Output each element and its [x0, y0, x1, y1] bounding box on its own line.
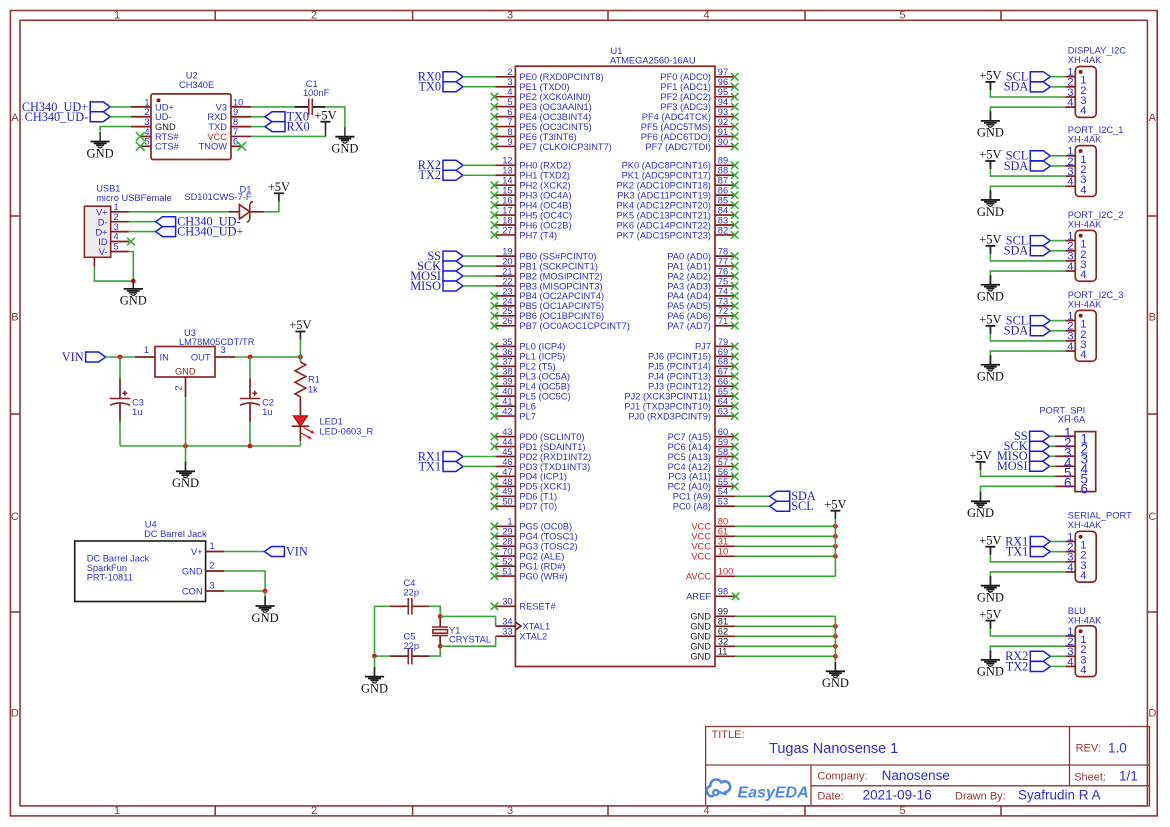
svg-text:GND: GND: [977, 290, 1004, 304]
wire U4 GND: [224, 571, 265, 591]
svg-text:86: 86: [718, 186, 728, 196]
wire +5V to SERIAL_PORT pin 3: [990, 555, 1065, 562]
junction: [248, 444, 253, 449]
svg-text:V3: V3: [216, 102, 227, 112]
SERIAL_PORT pin 3: [1065, 561, 1075, 563]
U1 pin 84 PK5: [715, 214, 735, 216]
svg-text:VIN: VIN: [286, 544, 308, 558]
svg-text:6: 6: [233, 137, 238, 147]
wire: [735, 645, 835, 647]
svg-text:PH5 (OC4C): PH5 (OC4C): [519, 210, 572, 220]
+5V power at U1: [824, 497, 846, 518]
BLU pin 4: [1065, 665, 1075, 667]
U1 pin 44 PD1: [495, 446, 515, 448]
svg-text:GND: GND: [690, 612, 711, 622]
svg-text:46: 46: [502, 457, 512, 467]
svg-text:PH1 (TXD2): PH1 (TXD2): [519, 171, 570, 181]
wire: [1050, 541, 1065, 543]
wire SERIAL_PORT pin 4 to ground: [990, 572, 1065, 576]
svg-text:PL5 (OC5C): PL5 (OC5C): [519, 391, 570, 401]
+5V power at PORT_I2C_2: [979, 233, 1001, 254]
wire: [1050, 655, 1065, 657]
svg-text:AVCC: AVCC: [686, 572, 711, 582]
svg-text:22p: 22p: [404, 641, 420, 651]
svg-text:MISO: MISO: [410, 279, 441, 293]
svg-text:+5V: +5V: [979, 607, 1001, 621]
wire +5V to node: [299, 339, 301, 357]
U3 pin 1: [135, 356, 155, 358]
svg-text:68: 68: [718, 357, 728, 367]
U1 pin 65 PJ2: [715, 395, 735, 397]
wire: [1050, 455, 1056, 457]
svg-text:V-: V-: [99, 247, 108, 257]
USB1 pin 1: [111, 211, 129, 213]
wire: [463, 255, 495, 257]
svg-text:1u: 1u: [132, 407, 142, 417]
capacitor C1 100nF: [295, 79, 330, 115]
svg-text:15: 15: [502, 186, 512, 196]
svg-text:XH-4AK: XH-4AK: [1068, 299, 1102, 309]
wire PORT_I2C_2 pin 4 to ground: [990, 271, 1065, 275]
+5V power at SERIAL_PORT: [979, 533, 1001, 554]
svg-text:72: 72: [718, 306, 728, 316]
svg-text:GND: GND: [175, 367, 196, 377]
wire: [1050, 86, 1065, 88]
DISPLAY_I2C pin 4: [1065, 106, 1075, 108]
wire LED1 cathode: [299, 426, 301, 441]
svg-text:13: 13: [502, 166, 512, 176]
U1 pin 83 PK6: [715, 224, 735, 226]
U1 pin 8 PE6: [495, 136, 515, 138]
svg-text:1: 1: [507, 517, 512, 527]
wire: [735, 545, 835, 547]
svg-text:4: 4: [1067, 562, 1073, 574]
wire C5 to crystal: [430, 646, 441, 656]
net flag TX1: [418, 459, 463, 473]
svg-text:2021-09-16: 2021-09-16: [863, 788, 932, 803]
U1 pin 99 GND: [715, 615, 735, 617]
wire to ground: [264, 591, 266, 597]
U1 pin 45 PD2: [495, 456, 515, 458]
svg-text:PB4 (OC2APCINT4): PB4 (OC2APCINT4): [519, 291, 604, 301]
svg-text:PORT_I2C_3: PORT_I2C_3: [1068, 290, 1124, 300]
wire: [1050, 665, 1065, 667]
U1 pin 77 PA1: [715, 265, 735, 267]
svg-text:75: 75: [718, 276, 728, 286]
svg-text:PK6 (ADC14PCINT22): PK6 (ADC14PCINT22): [616, 220, 711, 230]
svg-text:39: 39: [502, 377, 512, 387]
capacitor C2 1u (polarized): [240, 378, 274, 421]
svg-text:3: 3: [114, 222, 119, 232]
svg-text:PA1 (AD1): PA1 (AD1): [667, 261, 711, 271]
net flag SCK: [417, 259, 463, 273]
U1 pin 73 PA5: [715, 305, 735, 307]
svg-text:PA4 (AD4): PA4 (AD4): [667, 291, 711, 301]
U1 pin 55 PC2: [715, 485, 735, 487]
svg-text:PJ3 (PCINT12): PJ3 (PCINT12): [648, 382, 711, 392]
ground: [252, 597, 279, 625]
net flag SS at PORT_SPI: [1014, 429, 1050, 443]
svg-text:90: 90: [718, 137, 728, 147]
svg-text:53: 53: [718, 497, 728, 507]
svg-text:7: 7: [507, 117, 512, 127]
svg-text:PD7 (T0): PD7 (T0): [519, 502, 557, 512]
svg-text:XH-6A: XH-6A: [1058, 415, 1086, 425]
svg-text:DC Barrel Jack: DC Barrel Jack: [87, 554, 150, 564]
junction: [298, 355, 303, 360]
svg-text:PA7 (AD7): PA7 (AD7): [667, 321, 711, 331]
svg-text:PG4 (TOSC1): PG4 (TOSC1): [519, 532, 577, 542]
no-connect U2 pin 5: [136, 142, 145, 151]
wire: [110, 116, 131, 118]
svg-text:21: 21: [502, 266, 512, 276]
svg-text:IN: IN: [160, 353, 169, 363]
svg-text:1: 1: [144, 97, 149, 107]
net flag RX0: [265, 119, 310, 133]
U1 pin 18 PH6: [495, 224, 515, 226]
U1 pin 68 PJ5: [715, 365, 735, 367]
svg-text:PE0 (RXD0PCINT8): PE0 (RXD0PCINT8): [519, 72, 603, 82]
wire PORT_SPI pin 6 to ground: [981, 486, 1056, 491]
net flag MISO at PORT_SPI: [997, 449, 1050, 463]
svg-text:2: 2: [114, 212, 119, 222]
svg-text:PC7 (A15): PC7 (A15): [668, 432, 711, 442]
ground: [977, 576, 1004, 604]
svg-text:47: 47: [502, 467, 512, 477]
wire PC1 to SDA: [735, 495, 770, 497]
U3 pin 3: [215, 356, 235, 358]
svg-text:XTAL2: XTAL2: [519, 632, 547, 642]
svg-text:PORT_I2C_2: PORT_I2C_2: [1068, 210, 1124, 220]
net flag SCL at PORT_I2C_2: [1006, 233, 1051, 247]
wire C1 to GND: [325, 107, 345, 127]
U1 pin 61 VCC: [715, 535, 735, 537]
wire VCC to +5V: [251, 135, 326, 137]
svg-text:PL2 (T5): PL2 (T5): [519, 362, 555, 372]
U1 pin 36 PL1: [495, 355, 515, 357]
svg-text:49: 49: [502, 487, 512, 497]
junction: [833, 544, 838, 549]
U4 pin 1: [206, 551, 224, 553]
wire: [463, 456, 495, 458]
PORT_I2C_1 pin 3: [1065, 175, 1075, 177]
wire: [1050, 551, 1065, 553]
regulator U3 LM78M05CDT/TR body: [155, 328, 255, 377]
svg-text:PJ0 (RXD3PCINT9): PJ0 (RXD3PCINT9): [628, 411, 711, 421]
wire: [1050, 445, 1056, 447]
U1 pin 5 PE3: [495, 106, 515, 108]
svg-text:99: 99: [718, 607, 728, 617]
ground: [87, 132, 114, 160]
svg-text:PA6 (AD6): PA6 (AD6): [667, 311, 711, 321]
svg-text:U2: U2: [186, 71, 198, 81]
svg-text:GND: GND: [331, 142, 358, 156]
ground: [977, 190, 1004, 218]
U1 pin 82 PK7: [715, 234, 735, 236]
svg-text:RX0: RX0: [287, 119, 310, 133]
U1 pin 9 PE7: [495, 145, 515, 147]
wire +5V to PORT_I2C_1 pin 3: [990, 169, 1065, 176]
svg-text:PE2 (XCK0AIN0): PE2 (XCK0AIN0): [519, 92, 590, 102]
U1 pin 93 PF4: [715, 116, 735, 118]
U1 pin 54 PC1: [715, 495, 735, 497]
wire D+ net: [129, 231, 156, 233]
svg-text:PE4 (OC3BINT4): PE4 (OC3BINT4): [519, 112, 591, 122]
svg-text:95: 95: [718, 87, 728, 97]
svg-text:PE5 (OC3CINT5): PE5 (OC3CINT5): [519, 122, 591, 132]
U1 pin 80 VCC: [715, 525, 735, 527]
svg-text:44: 44: [502, 437, 512, 447]
ground: [977, 111, 1004, 139]
PORT_I2C_3 pin 2: [1065, 330, 1075, 332]
svg-text:64: 64: [718, 397, 728, 407]
U1 pin 15 PH3: [495, 194, 515, 196]
U1 pin 46 PD3: [495, 465, 515, 467]
U1 pin 86 PK3: [715, 194, 735, 196]
junction: [833, 644, 838, 649]
svg-text:U4: U4: [145, 519, 157, 529]
resistor R1 1k: [295, 357, 320, 397]
svg-text:PD5 (XCK1): PD5 (XCK1): [519, 482, 570, 492]
svg-text:77: 77: [718, 256, 728, 266]
net flag TX2 at BLU: [1006, 659, 1051, 673]
svg-text:28: 28: [502, 537, 512, 547]
net flag TX0: [418, 80, 463, 94]
svg-text:PB1 (SCKPCINT1): PB1 (SCKPCINT1): [519, 261, 598, 271]
wire to C2: [249, 357, 251, 378]
wire crystal ground rail: [374, 606, 376, 656]
svg-text:10: 10: [718, 547, 728, 557]
U1 pin 1 PG5: [495, 525, 515, 527]
svg-text:GND: GND: [690, 652, 711, 662]
U1 pin 30 RESET#: [495, 605, 515, 607]
junction: [833, 554, 838, 559]
svg-text:54: 54: [718, 487, 728, 497]
net flag TX2: [418, 168, 463, 182]
U1 pin 56 PC3: [715, 475, 735, 477]
svg-text:+5V: +5V: [314, 108, 336, 122]
DISPLAY_I2C pin 1: [1065, 76, 1075, 78]
svg-text:1k: 1k: [308, 384, 318, 394]
junction: [438, 614, 443, 619]
junction: [118, 355, 123, 360]
wire +5V rail: [834, 518, 836, 576]
svg-text:XH-4AK: XH-4AK: [1068, 616, 1102, 626]
PORT_I2C_3 pin 1: [1065, 320, 1075, 322]
BLU pin 3: [1065, 655, 1075, 657]
svg-text:9: 9: [233, 107, 238, 117]
svg-text:PK0 (ADC8PCINT16): PK0 (ADC8PCINT16): [622, 161, 711, 171]
U1 pin 58 PC5: [715, 456, 735, 458]
+5V power at PORT_I2C_1: [979, 148, 1001, 169]
svg-text:4: 4: [1080, 349, 1086, 361]
svg-text:PH2 (XCK2): PH2 (XCK2): [519, 181, 570, 191]
svg-text:91: 91: [718, 127, 728, 137]
wire: [463, 76, 495, 78]
junction: [833, 534, 838, 539]
U1 pin 11 GND: [715, 655, 735, 657]
svg-text:26: 26: [502, 316, 512, 326]
U1 pin 41 PL6: [495, 405, 515, 407]
svg-text:PL6: PL6: [519, 401, 536, 411]
wire +5V to DISPLAY_I2C pin 3: [990, 90, 1065, 97]
wire PORT_I2C_1 pin 4 to ground: [990, 186, 1065, 190]
svg-text:38: 38: [502, 367, 512, 377]
U2 pin 7: [231, 135, 251, 137]
svg-text:PC1 (A9): PC1 (A9): [673, 492, 711, 502]
svg-text:XH-4AK: XH-4AK: [1068, 219, 1102, 229]
wire: [463, 86, 495, 88]
svg-text:70: 70: [502, 547, 512, 557]
svg-text:PB3 (MISOPCINT3): PB3 (MISOPCINT3): [519, 281, 602, 291]
U1 pin 71 PA7: [715, 325, 735, 327]
net flag SCL at PORT_I2C_3: [1006, 313, 1051, 327]
svg-text:4: 4: [114, 232, 119, 242]
svg-text:4: 4: [144, 127, 149, 137]
net flag RX1 at SERIAL_PORT: [1005, 534, 1050, 548]
wire: [735, 655, 835, 657]
svg-text:micro USBFemale: micro USBFemale: [96, 193, 171, 203]
U2 pin 8: [231, 126, 251, 128]
svg-text:PB2 (MOSIPCINT2): PB2 (MOSIPCINT2): [519, 271, 602, 281]
U1 pin 100 AVCC: [715, 575, 735, 577]
wire: [463, 164, 495, 166]
U1 pin 60 PC7: [715, 436, 735, 438]
svg-text:4: 4: [1080, 105, 1086, 117]
ground: [977, 355, 1004, 383]
crystal Y1: [432, 616, 491, 646]
U1 pin 97 PF0: [715, 76, 735, 78]
svg-text:6: 6: [507, 107, 512, 117]
svg-text:5: 5: [144, 137, 149, 147]
svg-text:SDA: SDA: [1004, 324, 1029, 338]
svg-text:81: 81: [718, 617, 728, 627]
svg-text:PH4 (OC4B): PH4 (OC4B): [519, 200, 571, 210]
svg-text:78: 78: [718, 247, 728, 257]
junction: [833, 654, 838, 659]
net flag VIN (from U4): [264, 544, 307, 558]
svg-text:PH7 (T4): PH7 (T4): [519, 230, 557, 240]
connector PORT_I2C_3 XH-4AK body: [1068, 290, 1124, 361]
svg-text:SCL: SCL: [791, 499, 814, 513]
svg-text:80: 80: [718, 517, 728, 527]
PORT_I2C_2 pin 2: [1065, 250, 1075, 252]
U1 pin 74 PA4: [715, 295, 735, 297]
net flag CH340_UD+ (to U2 pin 1): [22, 100, 110, 114]
svg-text:Syafrudin R A: Syafrudin R A: [1018, 788, 1101, 803]
svg-text:82: 82: [718, 225, 728, 235]
U1 pin 12 PH0: [495, 164, 515, 166]
svg-text:14: 14: [502, 176, 512, 186]
net flag CH340_UD+: [156, 224, 244, 238]
svg-text:PG5 (OC0B): PG5 (OC0B): [519, 522, 572, 532]
U1 pin 52 PG1: [495, 565, 515, 567]
svg-text:57: 57: [718, 457, 728, 467]
svg-text:PF3 (ADC3): PF3 (ADC3): [660, 102, 711, 112]
svg-text:AREF: AREF: [686, 592, 711, 602]
svg-text:PRT-10811: PRT-10811: [87, 573, 133, 583]
U1 pin 16 PH4: [495, 204, 515, 206]
PORT_I2C_3 pin 3: [1065, 340, 1075, 342]
connector PORT_I2C_1 XH-4AK body: [1068, 125, 1124, 196]
svg-text:PJ4 (PCINT13): PJ4 (PCINT13): [648, 372, 711, 382]
net flag SDA at PORT_I2C_1: [1004, 159, 1051, 173]
svg-text:GND: GND: [977, 665, 1004, 679]
svg-text:CON: CON: [182, 587, 203, 597]
svg-text:SparkFun: SparkFun: [87, 563, 127, 573]
net flag SCL: [770, 499, 814, 513]
U1 pin 72 PA6: [715, 315, 735, 317]
svg-text:C: C: [1148, 511, 1156, 523]
BLU pin 2: [1065, 645, 1075, 647]
svg-text:67: 67: [718, 367, 728, 377]
net flag SDA at PORT_I2C_3: [1004, 324, 1051, 338]
svg-text:UD-: UD-: [155, 112, 172, 122]
U1 pin 19 PB0: [495, 255, 515, 257]
U2 pin 1: [131, 106, 151, 108]
U1 pin 92 PF5: [715, 126, 735, 128]
svg-text:4: 4: [1080, 570, 1086, 582]
wire left rail to C5: [375, 655, 391, 657]
svg-text:PA5 (AD5): PA5 (AD5): [667, 301, 711, 311]
svg-text:5: 5: [899, 805, 905, 817]
svg-text:B: B: [1149, 312, 1156, 324]
SERIAL_PORT pin 4: [1065, 571, 1075, 573]
svg-text:84: 84: [718, 205, 728, 215]
svg-text:Date:: Date:: [817, 790, 843, 802]
svg-text:60: 60: [718, 427, 728, 437]
svg-text:61: 61: [718, 527, 728, 537]
PORT_SPI pin 4: [1055, 465, 1075, 467]
junction: [183, 444, 188, 449]
+5V power at D1: [268, 180, 290, 201]
svg-text:GND: GND: [120, 294, 147, 308]
wire: [1050, 155, 1065, 157]
svg-text:PC6 (A14): PC6 (A14): [668, 442, 711, 452]
svg-text:RTS#: RTS#: [155, 132, 179, 142]
U1 pin 42 PL7: [495, 415, 515, 417]
PORT_I2C_2 pin 3: [1065, 260, 1075, 262]
U1 pin 39 PL4: [495, 385, 515, 387]
svg-text:35: 35: [502, 337, 512, 347]
svg-text:29: 29: [502, 527, 512, 537]
U1 pin 21 PB2: [495, 275, 515, 277]
svg-text:4: 4: [703, 10, 709, 22]
svg-text:4: 4: [1080, 184, 1086, 196]
USB1 pin 5: [111, 251, 129, 253]
U1 pin 32 GND: [715, 645, 735, 647]
svg-text:5: 5: [507, 97, 512, 107]
svg-text:79: 79: [718, 337, 728, 347]
svg-text:PD2 (RXD1INT2): PD2 (RXD1INT2): [519, 452, 591, 462]
svg-text:XTAL1: XTAL1: [522, 621, 550, 631]
LED LED1 LED-0603_R: [292, 416, 374, 439]
net flag SCL at PORT_I2C_1: [1006, 149, 1051, 163]
wire: [1050, 320, 1065, 322]
svg-text:REV:: REV:: [1076, 743, 1101, 755]
wire: [1050, 76, 1065, 78]
svg-text:PL1 (ICP5): PL1 (ICP5): [519, 352, 565, 362]
svg-text:11: 11: [718, 647, 728, 657]
svg-text:43: 43: [502, 427, 512, 437]
junction: [833, 634, 838, 639]
wire C3 to rail: [119, 422, 121, 447]
svg-text:VIN: VIN: [62, 350, 84, 364]
U1 pin 14 PH2: [495, 184, 515, 186]
U1 pin 26 PB7: [495, 325, 515, 327]
EasyEDA logo: [707, 779, 809, 801]
wire: [1050, 435, 1056, 437]
